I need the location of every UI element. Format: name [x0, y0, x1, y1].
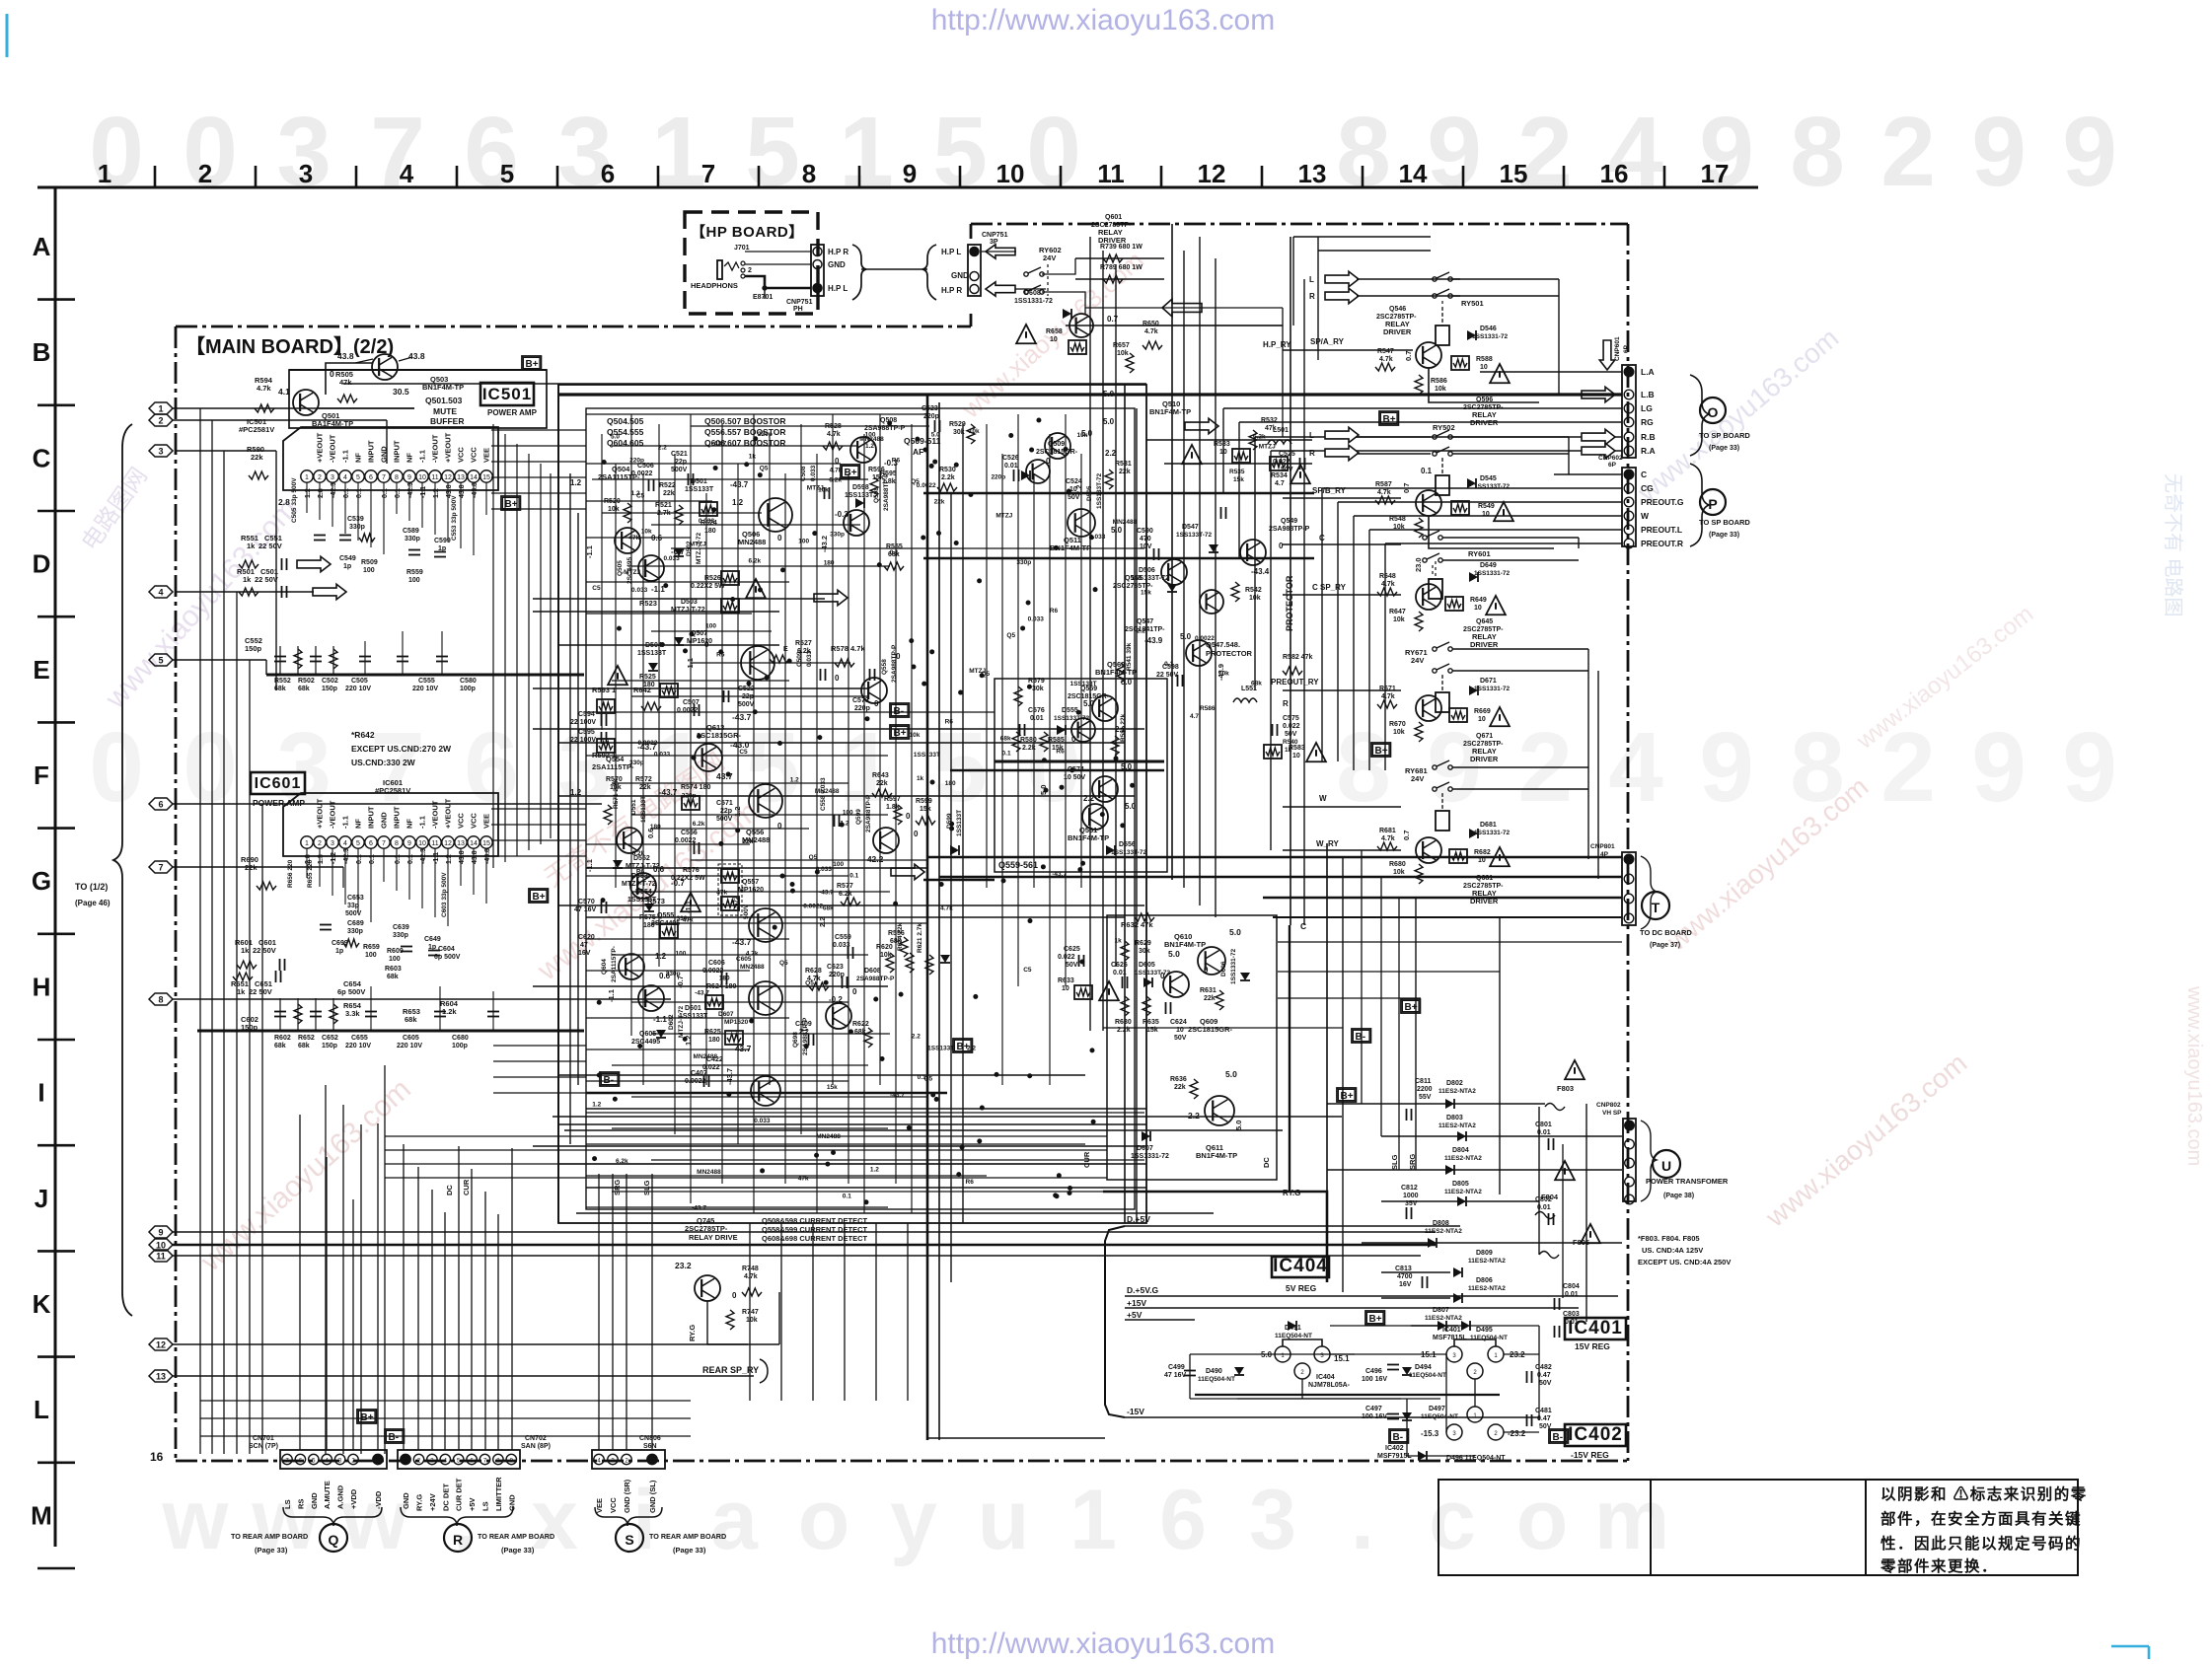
svg-text:R523: R523: [639, 599, 657, 608]
svg-text:(Page 33): (Page 33): [1709, 445, 1739, 452]
transistor Q505b: [638, 555, 664, 581]
svg-text:100: 100: [843, 809, 853, 816]
svg-text:220p: 220p: [991, 473, 1005, 480]
svg-text:12: 12: [444, 474, 452, 481]
svg-text:220p: 220p: [854, 705, 870, 712]
svg-text:LS: LS: [481, 1501, 490, 1511]
svg-text:2SC2785TP-: 2SC2785TP-: [685, 1224, 728, 1233]
wires top right: [1292, 237, 1294, 326]
arrow mid row E: [814, 590, 848, 605]
svg-text:C549: C549: [339, 555, 356, 562]
center wire mesh horizontals: [586, 413, 927, 415]
svg-text:68k: 68k: [405, 1015, 417, 1024]
svg-text:C509: C509: [796, 651, 803, 667]
svg-text:0: 0: [835, 674, 840, 683]
svg-text:B+: B+: [957, 1042, 970, 1052]
B+ regulator: [1365, 1311, 1384, 1325]
bottom center wire band: [385, 1135, 1107, 1137]
svg-text:10k: 10k: [1435, 386, 1446, 393]
svg-text:D495: D495: [1476, 1327, 1493, 1334]
svg-text:C655: C655: [351, 1035, 368, 1042]
svg-text:10k: 10k: [641, 529, 652, 536]
svg-text:22 100V: 22 100V: [570, 719, 596, 726]
svg-text:330p: 330p: [349, 524, 365, 531]
svg-text:0.7: 0.7: [1404, 351, 1413, 361]
svg-text:www.xiaoyu163.com: www.xiaoyu163.com: [2183, 985, 2205, 1166]
svg-text:SP/A_RY: SP/A_RY: [1310, 337, 1345, 346]
svg-text:R.A: R.A: [1641, 446, 1656, 456]
svg-text:5: 5: [500, 159, 514, 188]
svg-text:6: 6: [369, 474, 373, 481]
svg-text:MTZJ-T-72: MTZJ-T-72: [622, 881, 656, 888]
center inner box: [586, 408, 1135, 1209]
svg-text:100: 100: [705, 623, 716, 630]
svg-text:BN1F4M-TP: BN1F4M-TP: [1196, 1151, 1237, 1160]
transistor Q509a: [1045, 433, 1070, 459]
svg-text:Q596: Q596: [1476, 397, 1493, 403]
svg-text:DRIVER: DRIVER: [1383, 327, 1412, 336]
svg-text:TO SP BOARD: TO SP BOARD: [1699, 431, 1750, 440]
svg-text:VCC: VCC: [470, 447, 479, 463]
transistor Q548 circle: [1161, 559, 1187, 585]
svg-text:10k: 10k: [608, 506, 620, 513]
wire center bottom to power: [927, 1437, 1105, 1439]
svg-text:(Page 33): (Page 33): [501, 1546, 535, 1555]
resistor R524 180: [700, 502, 717, 516]
svg-text:-15V: -15V: [1127, 1407, 1144, 1416]
svg-text:IC404: IC404: [1316, 1374, 1335, 1381]
svg-text:6.2k: 6.2k: [693, 821, 705, 828]
svg-text:0.033: 0.033: [1089, 534, 1106, 541]
svg-text:MN2488: MN2488: [859, 436, 884, 443]
svg-text:INPUT: INPUT: [393, 440, 402, 463]
svg-text:0.033: 0.033: [699, 518, 715, 525]
svg-text:R548: R548: [1389, 516, 1406, 523]
svg-text:VEE: VEE: [595, 1498, 604, 1513]
svg-text:2SC1815GR-: 2SC1815GR-: [697, 731, 742, 740]
svg-text:R6: R6: [1056, 749, 1065, 756]
svg-text:220 10V: 220 10V: [397, 1043, 422, 1049]
svg-text:R588: R588: [1476, 356, 1493, 363]
svg-text:0.01: 0.01: [1113, 970, 1127, 977]
svg-text:C556: C556: [681, 830, 698, 836]
svg-text:R603: R603: [385, 966, 402, 973]
svg-text:A.MUTE: A.MUTE: [323, 1481, 332, 1509]
arrow L top: [1325, 271, 1359, 286]
resistor R682 10: [1449, 849, 1467, 863]
svg-text:-43.7: -43.7: [730, 480, 749, 489]
arrow into hp R: [986, 282, 1015, 296]
svg-text:H.P_RY: H.P_RY: [1263, 340, 1291, 349]
svg-text:0.7: 0.7: [1402, 483, 1411, 493]
svg-text:0.1: 0.1: [1421, 467, 1433, 475]
svg-text:B+: B+: [1383, 414, 1396, 425]
svg-text:3: 3: [557, 97, 613, 207]
svg-text:0.0022: 0.0022: [803, 903, 823, 909]
thick bus under Q511: [923, 557, 1314, 560]
svg-text:BN1F4M-TP: BN1F4M-TP: [1164, 940, 1206, 949]
svg-text:4.7k: 4.7k: [746, 951, 759, 958]
svg-text:1.2: 1.2: [790, 777, 799, 784]
svg-text:0.033: 0.033: [654, 752, 671, 759]
B- right: [1352, 1029, 1370, 1043]
thick bus under IC601: [197, 1030, 584, 1033]
svg-text:22k: 22k: [251, 453, 263, 462]
svg-text:C571: C571: [716, 800, 733, 807]
svg-text:0: 0: [183, 712, 238, 823]
svg-text:R652: R652: [298, 1035, 315, 1042]
svg-text:220 10V: 220 10V: [412, 686, 438, 692]
svg-text:MN2488: MN2488: [738, 538, 766, 546]
svg-text:2SA1115TP-: 2SA1115TP-: [598, 472, 640, 481]
svg-text:22k: 22k: [639, 784, 651, 791]
arrow to LB: [1582, 387, 1615, 401]
svg-text:D649: D649: [1480, 562, 1497, 569]
resistor R669 10: [1449, 708, 1467, 722]
vertical pin stubs IC501: [306, 482, 308, 513]
svg-text:C524: C524: [1066, 478, 1082, 485]
svg-text:4.7: 4.7: [1190, 713, 1199, 720]
svg-text:S: S: [625, 1532, 633, 1548]
svg-text:6P: 6P: [1623, 344, 1630, 353]
svg-text:11: 11: [431, 840, 438, 847]
relay RY501 contacts: [1433, 277, 1437, 281]
svg-text:50V: 50V: [1066, 962, 1078, 969]
top ruler ticks: [154, 166, 157, 187]
svg-text:1.2: 1.2: [570, 478, 582, 487]
svg-text:0: 0: [1026, 97, 1081, 207]
svg-text:-1.1: -1.1: [684, 901, 693, 913]
svg-text:24V: 24V: [1043, 253, 1056, 262]
svg-text:Q604: Q604: [601, 959, 608, 975]
resistor R649 10: [1445, 597, 1463, 611]
svg-text:D546: D546: [1480, 326, 1497, 332]
wire 7: [173, 866, 343, 868]
svg-text:C620: C620: [578, 934, 595, 941]
svg-text:1: 1: [839, 97, 894, 207]
svg-text:16: 16: [1600, 159, 1629, 188]
svg-text:VEE: VEE: [482, 814, 491, 829]
svg-text:R671: R671: [1379, 686, 1396, 692]
svg-text:0.0022: 0.0022: [1195, 635, 1215, 642]
svg-text:6: 6: [158, 800, 163, 810]
main board border right: [1627, 224, 1630, 1461]
svg-text:SLG: SLG: [642, 1180, 651, 1195]
svg-text:R681: R681: [1379, 828, 1396, 834]
transistor Q745: [695, 1275, 720, 1301]
svg-text:Q506.507 BOOSTOR: Q506.507 BOOSTOR: [704, 416, 786, 426]
svg-text:330p: 330p: [347, 928, 363, 935]
thick rail top: [559, 393, 1622, 396]
svg-text:B-: B-: [1356, 1032, 1366, 1043]
svg-text:NF: NF: [406, 819, 414, 829]
svg-text:15: 15: [1500, 159, 1528, 188]
svg-text:13: 13: [156, 1372, 166, 1382]
svg-text:MN2488: MN2488: [816, 1133, 841, 1140]
wire q503 rail: [326, 363, 373, 395]
svg-text:m: m: [1594, 1473, 1669, 1567]
svg-text:性．因此只能以规定号码的: 性．因此只能以规定号码的: [1880, 1534, 2082, 1553]
svg-text:0.033: 0.033: [631, 587, 648, 594]
svg-text:5.0: 5.0: [931, 431, 940, 438]
svg-text:BN1F4M-TP: BN1F4M-TP: [1149, 407, 1191, 416]
svg-text:R622: R622: [852, 1021, 869, 1028]
CNP601 feeder wires: [1480, 371, 1622, 373]
transistor Q506 big: [759, 498, 792, 532]
svg-text:6p 500V: 6p 500V: [434, 954, 461, 961]
svg-text:P: P: [1708, 496, 1717, 512]
warning tri d: [1486, 596, 1506, 615]
svg-text:1SS133T-72: 1SS133T-72: [1474, 483, 1511, 490]
svg-text:-23.2: -23.2: [1508, 1429, 1526, 1438]
svg-text:B+: B+: [526, 359, 539, 370]
svg-text:50V: 50V: [1068, 494, 1080, 501]
svg-text:1k: 1k: [247, 542, 256, 550]
IC601 pin block: [283, 793, 498, 856]
svg-text:-VDD: -VDD: [374, 1490, 383, 1509]
svg-text:1k: 1k: [917, 775, 924, 782]
svg-text:0.033: 0.033: [1028, 616, 1045, 623]
warning tri center1: [746, 579, 766, 598]
row B extra wires: [1085, 307, 1283, 309]
svg-text:10: 10: [418, 474, 426, 481]
thick buses to CNP801: [927, 856, 1622, 858]
svg-text:PROTECTOR: PROTECTOR: [1285, 575, 1294, 631]
svg-text:VCC: VCC: [457, 813, 466, 829]
arrow row G: [891, 864, 924, 879]
svg-text:NJM78L05A-: NJM78L05A-: [1308, 1382, 1351, 1389]
transistor Q509b: [1026, 460, 1050, 483]
svg-text:3P: 3P: [990, 239, 998, 246]
svg-text:D601: D601: [685, 1005, 701, 1012]
svg-text:PREOUT_RY: PREOUT_RY: [1271, 678, 1319, 687]
svg-text:9: 9: [2062, 712, 2117, 823]
svg-text:0.1: 0.1: [1002, 750, 1011, 757]
wire SP/B_RY: [1283, 497, 1401, 499]
svg-text:0.01: 0.01: [1030, 715, 1044, 722]
svg-text:L.B: L.B: [1641, 390, 1655, 399]
wire 11: [173, 1255, 1421, 1257]
svg-text:IC501: IC501: [482, 385, 532, 403]
svg-text:5: 5: [356, 840, 360, 847]
svg-text:9: 9: [1699, 97, 1754, 207]
svg-text:C5: C5: [1023, 967, 1032, 974]
arrow to RA: [1582, 443, 1615, 458]
svg-text:4P: 4P: [1600, 851, 1609, 858]
svg-text:5: 5: [745, 97, 800, 207]
wires from RY602: [1042, 258, 1075, 274]
svg-text:10 50V: 10 50V: [1064, 774, 1086, 781]
svg-text:C603 33p 500V: C603 33p 500V: [441, 872, 448, 917]
transistor Q561a: [1092, 776, 1118, 802]
transistor Q557 big: [749, 908, 782, 942]
svg-text:22 50V: 22 50V: [255, 575, 278, 584]
svg-text:VH SP: VH SP: [1602, 1110, 1622, 1117]
svg-text:R650: R650: [1143, 321, 1159, 327]
svg-text:G: G: [32, 866, 51, 896]
svg-text:10: 10: [1482, 511, 1490, 518]
svg-text:0.1: 0.1: [918, 1074, 926, 1081]
svg-text:C626: C626: [1111, 962, 1128, 969]
svg-text:15k: 15k: [872, 474, 884, 481]
B+ right1: [1401, 999, 1420, 1013]
svg-text:C652: C652: [322, 1035, 338, 1042]
svg-text:a: a: [710, 1473, 759, 1567]
svg-text:C689: C689: [347, 920, 364, 927]
svg-text:D607: D607: [1137, 1145, 1153, 1152]
svg-text:2SA988TP-P: 2SA988TP-P: [865, 794, 872, 832]
svg-text:4: 4: [1608, 97, 1663, 207]
svg-text:R634 22k: R634 22k: [897, 922, 904, 951]
svg-text:C497: C497: [1365, 1406, 1382, 1412]
svg-text:0.033: 0.033: [754, 1118, 771, 1124]
svg-text:CNP602: CNP602: [1598, 455, 1623, 462]
svg-text:CUR DET: CUR DET: [455, 1478, 464, 1511]
IC601 label box: [251, 772, 305, 794]
parts table: [1438, 1480, 2078, 1575]
svg-text:GND (SL): GND (SL): [648, 1480, 657, 1513]
svg-text:6.2k: 6.2k: [748, 557, 761, 564]
svg-text:10k: 10k: [910, 732, 921, 739]
svg-text:Q671: Q671: [1476, 733, 1493, 740]
svg-text:(Page 46): (Page 46): [75, 899, 111, 907]
svg-text:1: 1: [1069, 1473, 1117, 1567]
svg-text:C572: C572: [733, 896, 740, 911]
svg-text:Q546: Q546: [1389, 306, 1406, 313]
horizontal wires right mid: [1327, 1103, 1545, 1105]
svg-text:220p: 220p: [629, 458, 644, 465]
svg-text:24V: 24V: [1411, 774, 1424, 783]
warning tri h: [1182, 445, 1202, 464]
svg-text:R573: R573: [647, 897, 665, 905]
svg-text:2: 2: [1517, 97, 1573, 207]
svg-text:C553 33p 500V: C553 33p 500V: [451, 495, 458, 541]
svg-text:F: F: [34, 760, 49, 790]
left brace big: [113, 424, 132, 1316]
svg-text:43.8: 43.8: [472, 850, 479, 864]
svg-text:10k: 10k: [1249, 595, 1261, 602]
svg-text:7: 7: [382, 474, 386, 481]
svg-text:C699: C699: [332, 940, 348, 947]
svg-text:W: W: [1319, 794, 1327, 803]
svg-text:R547: R547: [1377, 348, 1394, 355]
svg-text:-43.7: -43.7: [732, 1044, 752, 1053]
svg-text:0.1: 0.1: [343, 488, 350, 498]
svg-text:10: 10: [1474, 605, 1482, 612]
svg-text:B-: B-: [1393, 1432, 1404, 1443]
left ruler line: [54, 187, 57, 1547]
svg-text:c: c: [1429, 1473, 1476, 1567]
svg-text:R527: R527: [795, 640, 812, 647]
svg-text:R577: R577: [837, 883, 853, 890]
svg-text:180: 180: [719, 976, 730, 982]
svg-text:U: U: [1661, 1158, 1671, 1174]
svg-text:9: 9: [158, 1228, 163, 1238]
svg-text:1.2: 1.2: [446, 854, 453, 864]
svg-text:10k: 10k: [1218, 670, 1229, 677]
svg-text:100: 100: [389, 956, 401, 963]
svg-text:L: L: [1309, 275, 1314, 284]
svg-text:-15.3: -15.3: [1421, 1429, 1439, 1438]
svg-text:15k: 15k: [827, 1084, 838, 1091]
svg-text:1SS1331-72: 1SS1331-72: [1131, 1153, 1169, 1160]
svg-text:Q558&599 CURRENT DETECT: Q558&599 CURRENT DETECT: [762, 1225, 868, 1234]
svg-text:PREOUT.L: PREOUT.L: [1641, 525, 1682, 535]
svg-text:0.022: 0.022: [1058, 954, 1075, 961]
svg-text:PROTECTOR: PROTECTOR: [1206, 649, 1253, 658]
svg-text:R6: R6: [716, 651, 725, 658]
svg-text:8: 8: [395, 840, 399, 847]
svg-text:o: o: [1516, 1473, 1569, 1567]
svg-text:无奇不有 电路图: 无奇不有 电路图: [2162, 473, 2184, 617]
hp cable right brace: [852, 245, 866, 300]
svg-text:-VEOUT: -VEOUT: [329, 434, 337, 463]
svg-text:MTZJ-T-72: MTZJ-T-72: [678, 1005, 685, 1038]
svg-text:Q601: Q601: [1105, 214, 1122, 221]
svg-text:55V: 55V: [1419, 1094, 1432, 1101]
svg-text:1SS133T: 1SS133T: [1069, 681, 1096, 687]
svg-text:-1.1: -1.1: [653, 1015, 667, 1024]
svg-text:0.7: 0.7: [1402, 831, 1411, 840]
cap cluster under IC601: [279, 998, 281, 1031]
svg-text:10k: 10k: [969, 428, 980, 435]
svg-text:R659: R659: [363, 944, 380, 951]
svg-text:PREOUT.R: PREOUT.R: [1641, 539, 1683, 548]
svg-text:150p: 150p: [322, 686, 337, 692]
svg-text:15k: 15k: [920, 806, 931, 813]
svg-text:11EQ504-NT: 11EQ504-NT: [1421, 1413, 1458, 1420]
circle P connector: [1700, 489, 1726, 515]
capacitor C524b: [1220, 507, 1222, 519]
svg-text:16V: 16V: [578, 950, 591, 957]
svg-text:DC DET: DC DET: [441, 1483, 450, 1511]
svg-text:(Page 38): (Page 38): [1663, 1193, 1694, 1199]
svg-text:C525: C525: [1279, 451, 1295, 458]
svg-text:2SA988TP-P: 2SA988TP-P: [856, 976, 895, 982]
CN806 brace: [595, 1507, 662, 1526]
svg-text:C482: C482: [1535, 1364, 1552, 1371]
svg-text:3: 3: [331, 474, 334, 481]
svg-text:2SA1115TP-: 2SA1115TP-: [611, 946, 618, 982]
bottom vertical bundle CN701: [299, 1115, 301, 1450]
svg-text:POWER TRANSFOMER: POWER TRANSFOMER: [1646, 1177, 1729, 1186]
svg-text:-43.7: -43.7: [732, 712, 752, 722]
left connector 1: [149, 402, 173, 414]
svg-text:2SC1815GR-: 2SC1815GR-: [1036, 449, 1078, 456]
svg-text:Q5: Q5: [981, 671, 990, 678]
transistor Q604a: [619, 954, 644, 979]
svg-text:0.1: 0.1: [849, 873, 858, 880]
svg-text:0.1: 0.1: [395, 854, 402, 864]
svg-text:6.2k: 6.2k: [616, 1158, 628, 1165]
transistor QE big: [741, 646, 774, 680]
svg-text:2: 2: [1880, 97, 1936, 207]
svg-text:4: 4: [1608, 712, 1663, 823]
svg-text:22k: 22k: [934, 498, 945, 505]
warning tri A: [1490, 364, 1510, 383]
transistor Q545 driver: [1416, 490, 1441, 516]
svg-text:【HP BOARD】: 【HP BOARD】: [691, 223, 804, 241]
svg-text:R656 220: R656 220: [287, 859, 294, 888]
svg-text:8: 8: [1790, 97, 1845, 207]
thick gnd bus regulator: [1195, 1394, 1500, 1396]
svg-text:4.7: 4.7: [1275, 480, 1285, 487]
svg-text:10k: 10k: [1393, 869, 1405, 876]
svg-text:B-: B-: [1553, 1432, 1564, 1443]
svg-text:C576: C576: [1028, 707, 1045, 714]
svg-text:9: 9: [1971, 97, 2027, 207]
svg-text:B+: B+: [361, 1412, 374, 1423]
